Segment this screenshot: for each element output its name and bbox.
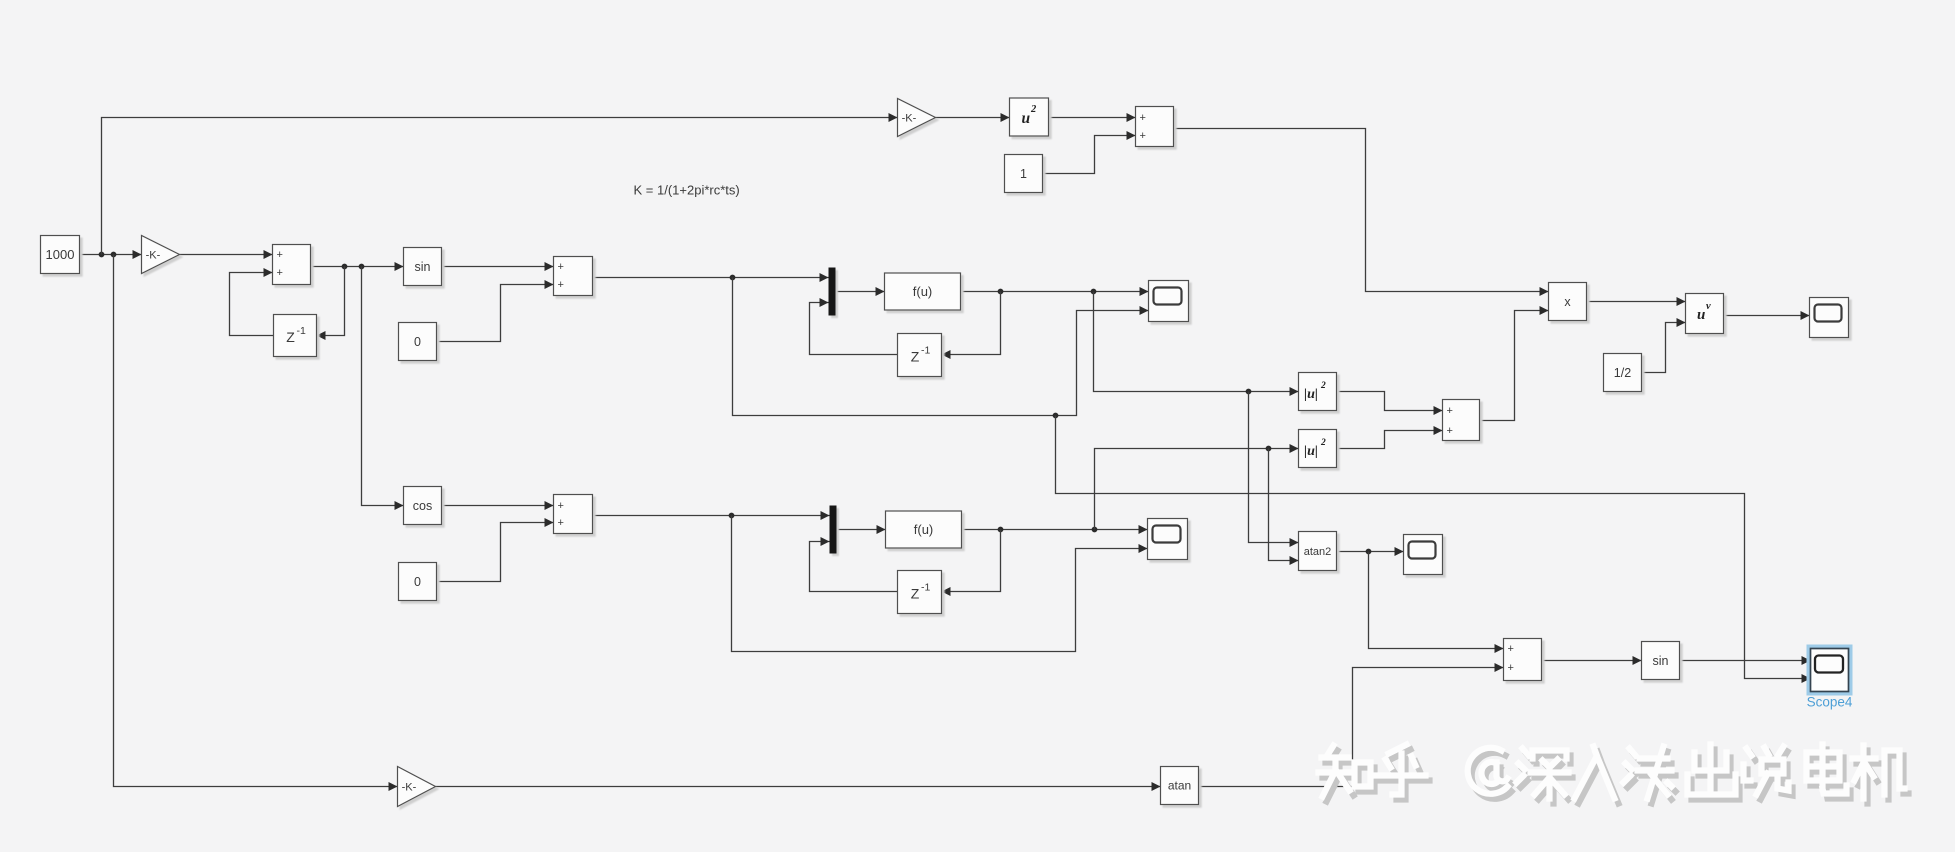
- svg-text:atan2: atan2: [1304, 546, 1332, 558]
- svg-text:+: +: [1447, 405, 1453, 417]
- svg-text:K = 1/(1+2pi*rc*ts): K = 1/(1+2pi*rc*ts): [634, 183, 740, 198]
- svg-text:Z: Z: [286, 329, 295, 345]
- svg-text:u: u: [1022, 110, 1031, 127]
- svg-text:|u|: |u|: [1304, 444, 1318, 459]
- svg-text:+: +: [1140, 130, 1146, 142]
- svg-text:-K-: -K-: [146, 249, 161, 261]
- svg-text:+: +: [558, 261, 564, 273]
- svg-text:1/2: 1/2: [1614, 366, 1631, 380]
- svg-text:0: 0: [414, 575, 421, 589]
- svg-text:Scope4: Scope4: [1807, 695, 1853, 710]
- svg-text:f(u): f(u): [913, 284, 933, 299]
- svg-text:-1: -1: [921, 345, 930, 357]
- svg-text:-1: -1: [297, 325, 306, 337]
- svg-text:+: +: [1447, 425, 1453, 437]
- svg-text:+: +: [558, 500, 564, 512]
- svg-text:f(u): f(u): [914, 522, 934, 537]
- svg-text:+: +: [558, 279, 564, 291]
- svg-text:2: 2: [1030, 104, 1037, 115]
- svg-text:+: +: [1508, 662, 1514, 674]
- svg-text:sin: sin: [415, 260, 431, 274]
- svg-text:Z: Z: [911, 349, 920, 365]
- svg-text:2: 2: [1320, 438, 1326, 448]
- svg-text:1: 1: [1020, 167, 1027, 181]
- svg-text:u: u: [1697, 307, 1705, 323]
- svg-text:-K-: -K-: [902, 112, 917, 124]
- svg-text:+: +: [1140, 112, 1146, 124]
- svg-text:|u|: |u|: [1304, 387, 1318, 402]
- svg-text:0: 0: [414, 335, 421, 349]
- svg-text:sin: sin: [1653, 654, 1669, 668]
- svg-text:+: +: [277, 267, 283, 279]
- svg-text:Z: Z: [911, 586, 920, 602]
- svg-text:2: 2: [1320, 381, 1326, 391]
- svg-text:atan: atan: [1168, 779, 1191, 793]
- svg-text:1000: 1000: [46, 247, 75, 262]
- svg-text:+: +: [277, 249, 283, 261]
- svg-text:-K-: -K-: [402, 781, 417, 793]
- svg-text:cos: cos: [413, 499, 432, 513]
- svg-text:+: +: [1508, 643, 1514, 655]
- svg-text:+: +: [558, 517, 564, 529]
- svg-text:-1: -1: [921, 582, 930, 594]
- svg-text:x: x: [1564, 295, 1571, 309]
- svg-text:v: v: [1706, 301, 1711, 312]
